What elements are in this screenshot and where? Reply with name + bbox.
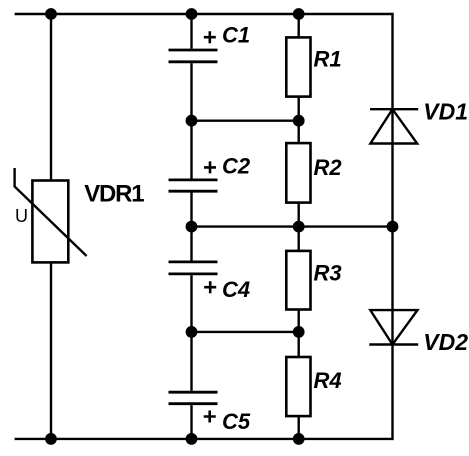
svg-text:R4: R4	[314, 368, 342, 393]
node row3 cap junction	[186, 326, 198, 338]
svg-text:VD1: VD1	[423, 98, 468, 124]
svg-text:C4: C4	[222, 277, 250, 302]
capacitor C2	[169, 180, 218, 191]
svg-text:C5: C5	[222, 409, 251, 434]
diode VD1	[370, 109, 418, 143]
node row1 cap junction	[186, 115, 198, 127]
wire bottom rail	[15, 438, 393, 440]
wire row2 connector	[192, 225, 393, 227]
node row1 resistor junction	[293, 115, 305, 127]
node top cap junction	[186, 8, 198, 20]
plus C4	[204, 281, 216, 293]
wire top rail	[15, 13, 393, 15]
diode VD2	[369, 310, 418, 344]
node row2 cap junction	[186, 221, 198, 233]
svg-text:R2: R2	[314, 155, 343, 180]
wire row3 connector	[192, 331, 299, 333]
resistor R3	[286, 251, 310, 310]
resistor R1	[286, 37, 310, 96]
varistor VDR1	[15, 168, 87, 262]
node row2 diode junction	[387, 221, 399, 233]
wire cap column seg3	[190, 193, 192, 261]
node bottom-left junction	[45, 433, 57, 445]
node top-left junction	[45, 8, 57, 20]
plus C2	[204, 161, 216, 173]
node bottom resistor junction	[293, 433, 305, 445]
svg-text:R1: R1	[314, 47, 342, 72]
node row3 resistor junction	[293, 326, 305, 338]
resistor R4	[286, 357, 310, 416]
capacitor C5	[169, 392, 218, 404]
svg-text:VDR1: VDR1	[84, 181, 144, 208]
wire resistor column	[298, 14, 300, 439]
svg-text:R3: R3	[314, 261, 342, 286]
wire cap column seg1	[190, 14, 192, 49]
node bottom cap junction	[186, 433, 198, 445]
capacitor C4	[169, 262, 218, 274]
plus C5	[204, 411, 216, 423]
node row2 resistor junction	[293, 221, 305, 233]
wire cap column seg5	[190, 405, 192, 439]
wire right column	[391, 13, 393, 440]
wire left column lower	[50, 262, 52, 439]
wire cap column seg2	[190, 63, 192, 179]
resistor R2	[286, 143, 310, 203]
wire row1 connector	[192, 119, 299, 121]
wire left column upper	[50, 14, 52, 181]
node top resistor junction	[293, 8, 305, 20]
plus C1	[204, 31, 216, 43]
svg-text:C2: C2	[222, 154, 251, 179]
svg-text:VD2: VD2	[423, 329, 468, 355]
capacitor C1	[169, 50, 218, 62]
svg-text:C1: C1	[222, 22, 250, 47]
svg-text:U: U	[15, 206, 28, 226]
wire cap column seg4	[190, 275, 192, 391]
